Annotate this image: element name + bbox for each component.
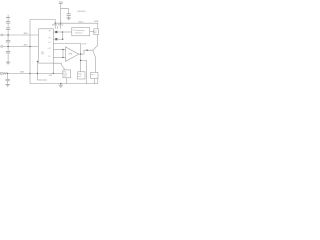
wire U7 stub to rail — [93, 79, 95, 84]
switch S2 crossed-circle — [55, 38, 57, 40]
wire riser x30 top — [30, 20, 55, 74]
wire rail right end — [97, 79, 99, 84]
wire AIN1 — [3, 46, 38, 48]
wire W5 VDD rail to right — [55, 23, 98, 29]
node junction rail-gnd — [60, 83, 61, 84]
wire bottom wire into U5 — [53, 72, 63, 74]
svg-text:SCK: SCK — [48, 42, 51, 44]
wire opamp branch down — [81, 54, 87, 84]
node junction chain-AIN0 — [7, 34, 8, 35]
node junction IC-bottom wire — [53, 73, 54, 74]
pin labels inside IC right edge — [48, 30, 52, 58]
node junction riser-bottom wire — [29, 73, 30, 74]
wire — [7, 81, 9, 85]
svg-text:AIN2: AIN2 — [20, 70, 24, 73]
op-amp U4 triangle — [66, 47, 79, 62]
wire — [7, 73, 9, 79]
block U7 bottom B — [91, 72, 98, 78]
wire U2 to U3 — [90, 31, 94, 33]
wire — [7, 53, 9, 62]
svg-text:DIN: DIN — [48, 56, 50, 58]
capacitor C1 plates — [6, 22, 10, 24]
block U3 small — [94, 29, 99, 35]
capacitor C5 plates — [5, 79, 9, 81]
svg-text:1220: 1220 — [41, 54, 44, 56]
svg-text:cell: cell — [78, 76, 81, 78]
node junction riser-AIN1 — [29, 46, 30, 47]
svg-text:Prec: Prec — [64, 72, 67, 74]
wire — [7, 29, 9, 40]
wire bottom input — [7, 72, 54, 74]
wire output rise — [84, 50, 93, 54]
svg-text:VOUT: VOUT — [81, 43, 87, 45]
node junction W4-W5 — [55, 23, 56, 24]
wire fork up diagonal — [93, 45, 98, 50]
wire AIN0 — [3, 34, 38, 36]
wire inner rail y80 — [37, 79, 47, 81]
wire feedback top — [53, 44, 80, 54]
wire to block1 — [63, 31, 72, 33]
wire below IC right edge — [52, 63, 54, 73]
svg-text:AVDD DVDD: AVDD DVDD — [52, 24, 64, 27]
wire S1 — [53, 31, 62, 33]
wire fork down diagonal — [93, 50, 96, 72]
ground below C5 — [6, 84, 10, 86]
wire IC pin to sensor box diagonal — [53, 63, 65, 70]
node junction chain-AIN1 — [7, 46, 8, 47]
capacitor C6 bypass plates — [67, 14, 71, 16]
wire S2 — [53, 38, 62, 40]
svg-text:ADS: ADS — [41, 51, 44, 54]
capacitor C4 plates — [6, 51, 10, 53]
wire pin into IC left — [37, 60, 38, 62]
switch S1 crossed-circle — [55, 31, 57, 33]
input terminal AIN1 — [1, 46, 3, 48]
ground flipped up, top of left input chain — [6, 15, 10, 18]
svg-text:REF: REF — [49, 30, 52, 32]
svg-text:DVDD: DVDD — [78, 21, 84, 23]
node junction S1 net — [62, 31, 63, 32]
svg-text:REF5025: REF5025 — [78, 11, 86, 13]
node junction x63 bottom — [62, 57, 63, 58]
wire riser x30 to rail — [30, 73, 98, 83]
wire VDD branch to bypass cap — [61, 9, 69, 14]
node junction x63 top — [62, 49, 63, 50]
wire U6 stub up — [80, 60, 82, 71]
node junction x37.4-pin — [37, 61, 38, 62]
input terminal VIN bottom — [0, 72, 2, 74]
wire U5 stub to rail — [66, 78, 68, 84]
wire IC pin to opamp plus — [53, 57, 65, 59]
wire riser x37.4 — [36, 61, 38, 80]
capacitor C2 plates — [6, 28, 10, 30]
svg-text:DOUT: DOUT — [48, 48, 52, 50]
wire vertical x63 — [62, 50, 64, 58]
resistor R1 zigzag — [2, 73, 7, 75]
input terminal AIN0 — [1, 34, 3, 36]
node junction S2 net — [62, 39, 63, 40]
wire vertical left filter chain — [7, 18, 9, 22]
block U5 bottom-middle sensor — [63, 70, 71, 78]
svg-text:REF: REF — [49, 75, 52, 77]
wire — [7, 42, 9, 51]
ground below rail — [59, 84, 63, 88]
node junction feedback-output — [80, 53, 81, 54]
pin stub DVDD — [57, 26, 59, 29]
block U6 bottom A — [78, 72, 85, 79]
wire opamp output — [79, 53, 84, 55]
node junction R1-C5 — [7, 73, 8, 74]
svg-text:load: load — [78, 74, 81, 76]
wire vertical connector x62.7 — [62, 32, 64, 39]
svg-text:AIN0: AIN0 — [24, 32, 28, 35]
block U2 reference — [72, 27, 90, 35]
svg-text:VDD: VDD — [59, 1, 64, 3]
svg-text:out: out — [91, 73, 94, 76]
node junction VDD-W5 — [60, 23, 61, 24]
ground bottom of left chain — [6, 62, 10, 64]
supply VDD T-bar — [59, 3, 63, 29]
node junction x37.4-bottom wire — [37, 73, 38, 74]
text smudges — [20, 1, 99, 77]
svg-text:REF: REF — [49, 38, 52, 40]
svg-text:out: out — [94, 29, 97, 32]
wire right edge vertical — [97, 35, 99, 46]
ground below C6 — [67, 18, 71, 20]
svg-text:VREF: VREF — [94, 21, 100, 23]
wire — [68, 15, 70, 18]
capacitor C3 differential plates — [6, 40, 10, 42]
svg-text:AIN1: AIN1 — [24, 44, 28, 47]
svg-text:+: + — [66, 58, 67, 60]
svg-text:sens: sens — [64, 76, 68, 78]
wire — [7, 23, 9, 28]
IC U1 main ADC rectangle — [39, 29, 54, 63]
svg-text:reference: reference — [75, 33, 83, 35]
wire IC pin to opamp minus — [53, 49, 65, 51]
